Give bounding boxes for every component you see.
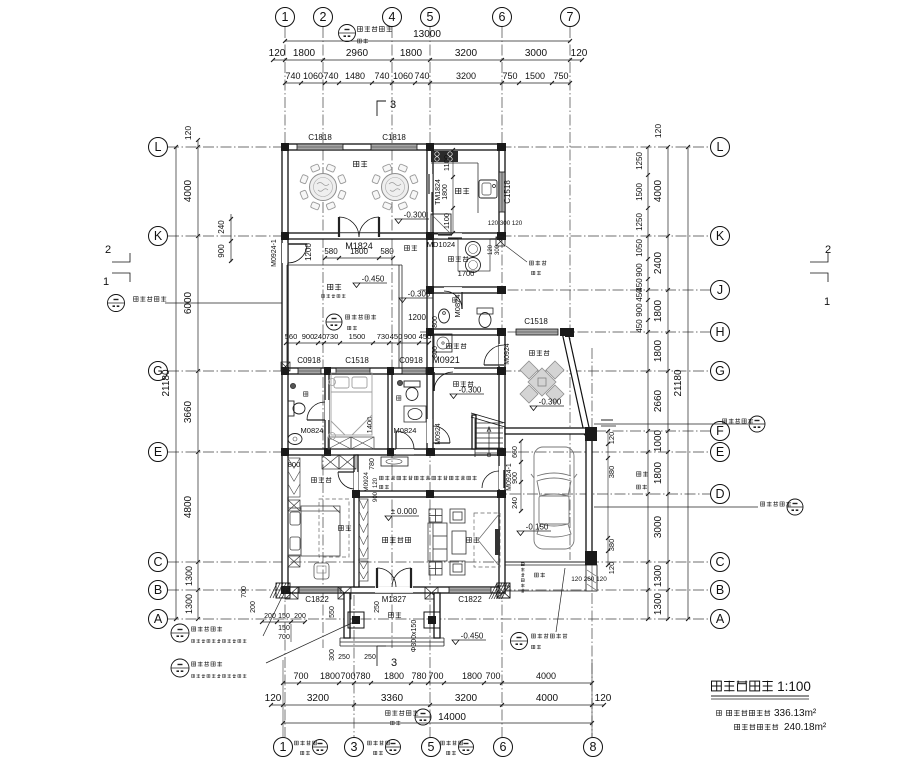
svg-text:120: 120: [571, 48, 588, 59]
svg-text:450: 450: [390, 332, 403, 341]
svg-text:1060: 1060: [393, 71, 413, 81]
svg-text:G: G: [715, 364, 725, 378]
svg-text:120: 120: [269, 48, 286, 59]
svg-text:380: 380: [607, 466, 616, 479]
svg-text:800: 800: [432, 316, 439, 328]
svg-text:1800: 1800: [462, 671, 482, 681]
svg-text:800: 800: [432, 346, 439, 358]
svg-text:C0918: C0918: [297, 356, 321, 365]
svg-text:L: L: [155, 140, 162, 154]
svg-text:C1822: C1822: [305, 595, 329, 604]
svg-text:120: 120: [607, 562, 616, 575]
svg-text:3000: 3000: [653, 515, 664, 538]
svg-text:120 260 120: 120 260 120: [571, 576, 607, 583]
svg-text:K: K: [716, 229, 725, 243]
svg-text:740: 740: [374, 71, 389, 81]
svg-text:1200: 1200: [408, 313, 426, 322]
svg-text:560: 560: [285, 332, 298, 341]
svg-text:1500: 1500: [525, 71, 545, 81]
svg-text:3200: 3200: [455, 693, 478, 704]
svg-text:660: 660: [512, 446, 519, 458]
svg-text:740: 740: [414, 71, 429, 81]
svg-text:3200: 3200: [455, 48, 478, 59]
svg-text:M0824: M0824: [394, 426, 417, 435]
svg-text:200: 200: [294, 613, 306, 620]
svg-text:700: 700: [428, 671, 443, 681]
svg-text:120: 120: [373, 477, 379, 488]
svg-text:1800: 1800: [350, 247, 368, 256]
svg-text:3200: 3200: [307, 693, 330, 704]
svg-text:5: 5: [428, 740, 435, 754]
svg-text:3360: 3360: [381, 693, 404, 704]
svg-text:900: 900: [635, 263, 644, 277]
svg-text:2: 2: [320, 10, 327, 24]
svg-text:6: 6: [499, 10, 506, 24]
svg-text:300: 300: [329, 649, 336, 661]
svg-text:1300: 1300: [653, 564, 664, 587]
svg-text:2: 2: [105, 244, 111, 256]
svg-text:900: 900: [512, 472, 519, 484]
svg-text:3660: 3660: [183, 400, 194, 423]
svg-text:1800: 1800: [653, 461, 664, 484]
svg-text:1: 1: [280, 740, 287, 754]
svg-text:±: ±: [391, 507, 396, 516]
svg-text:150: 150: [278, 613, 290, 620]
svg-text:B: B: [716, 583, 724, 597]
svg-text:3: 3: [390, 99, 396, 111]
svg-text:MD1024: MD1024: [427, 240, 455, 249]
svg-text:1300: 1300: [184, 566, 194, 586]
svg-text:1300: 1300: [184, 594, 194, 614]
svg-text:450: 450: [635, 319, 644, 333]
svg-text:580: 580: [324, 247, 338, 256]
svg-text:-0.450: -0.450: [461, 632, 484, 641]
svg-text:2400: 2400: [653, 251, 664, 274]
svg-text:730: 730: [377, 332, 390, 341]
svg-text:1: 1: [282, 10, 289, 24]
svg-text:4800: 4800: [183, 495, 194, 518]
svg-text:J: J: [717, 283, 723, 297]
svg-text:1050: 1050: [635, 239, 644, 257]
svg-text:6: 6: [500, 740, 507, 754]
svg-text:120: 120: [183, 126, 193, 140]
svg-text:1250: 1250: [635, 213, 644, 231]
svg-text:C: C: [715, 555, 724, 569]
svg-text:C1822: C1822: [458, 595, 482, 604]
svg-text:5: 5: [427, 10, 434, 24]
svg-text:1400: 1400: [365, 417, 374, 434]
svg-text:1000: 1000: [653, 429, 664, 452]
svg-text:800: 800: [288, 460, 301, 469]
svg-text:120: 120: [607, 432, 616, 445]
svg-text:TM1824: TM1824: [435, 179, 442, 205]
svg-text:K: K: [154, 229, 163, 243]
svg-text:240.18m²: 240.18m²: [784, 722, 827, 733]
svg-text:-0.150: -0.150: [526, 523, 549, 532]
svg-text:C0918: C0918: [399, 356, 423, 365]
svg-text:3: 3: [351, 740, 358, 754]
svg-text:336.13m²: 336.13m²: [774, 708, 817, 719]
svg-text:Φ300x150: Φ300x150: [411, 620, 418, 653]
svg-text:730: 730: [326, 332, 339, 341]
svg-text:750: 750: [502, 71, 517, 81]
svg-text:1: 1: [103, 276, 109, 288]
svg-text:M0924: M0924: [363, 472, 370, 492]
svg-text:250: 250: [364, 654, 376, 661]
svg-text:B: B: [154, 583, 162, 597]
svg-text:H: H: [715, 325, 724, 339]
svg-text:1800: 1800: [293, 48, 316, 59]
svg-text:3000: 3000: [525, 48, 548, 59]
svg-text:-0.300: -0.300: [404, 211, 427, 220]
svg-text:F: F: [716, 424, 724, 438]
svg-text:1800: 1800: [653, 299, 664, 322]
svg-text:2960: 2960: [346, 48, 369, 59]
svg-text:250: 250: [338, 654, 350, 661]
svg-text:M1827: M1827: [382, 595, 407, 604]
svg-text:200: 200: [264, 613, 276, 620]
svg-text:A: A: [154, 612, 163, 626]
svg-text:1100: 1100: [442, 155, 451, 171]
svg-text:7: 7: [567, 10, 574, 24]
svg-text:240: 240: [314, 332, 327, 341]
svg-text:240: 240: [512, 497, 519, 509]
svg-text:0.000: 0.000: [397, 507, 418, 516]
svg-text:C: C: [153, 555, 162, 569]
svg-text:120: 120: [265, 693, 282, 704]
svg-text:C1518: C1518: [503, 180, 512, 204]
svg-text:M0824: M0824: [301, 426, 324, 435]
svg-text:1: 1: [824, 296, 830, 308]
svg-text:1060: 1060: [303, 71, 323, 81]
svg-text:-0.300: -0.300: [408, 290, 431, 299]
svg-text:700: 700: [340, 671, 355, 681]
svg-text:21180: 21180: [673, 369, 684, 397]
svg-text:3: 3: [391, 657, 397, 669]
svg-text:700: 700: [293, 671, 308, 681]
svg-text:21180: 21180: [161, 369, 172, 397]
svg-text:250: 250: [374, 601, 381, 613]
svg-text:740: 740: [285, 71, 300, 81]
svg-text:120: 120: [595, 693, 612, 704]
svg-text:740: 740: [323, 71, 338, 81]
svg-text:L: L: [717, 140, 724, 154]
svg-text:900: 900: [373, 491, 379, 502]
svg-text:200: 200: [250, 601, 257, 613]
svg-text:1700: 1700: [458, 269, 475, 278]
svg-text:780: 780: [411, 671, 426, 681]
svg-text:D: D: [715, 487, 724, 501]
svg-text:120: 120: [488, 244, 494, 255]
svg-text:450: 450: [419, 332, 432, 341]
svg-text:2660: 2660: [653, 389, 664, 412]
svg-text:A: A: [716, 612, 725, 626]
svg-text:900: 900: [302, 332, 315, 341]
svg-text:1800: 1800: [653, 339, 664, 362]
svg-text:13000: 13000: [413, 29, 441, 40]
svg-text:1800: 1800: [384, 671, 404, 681]
svg-text:780: 780: [369, 458, 376, 470]
svg-text:1500: 1500: [635, 183, 644, 201]
svg-text:4000: 4000: [653, 179, 664, 202]
svg-text:550: 550: [329, 606, 336, 618]
svg-text:1300: 1300: [653, 592, 664, 615]
svg-text:1250: 1250: [635, 152, 644, 170]
svg-text:780: 780: [355, 671, 370, 681]
svg-text:-0.300: -0.300: [539, 398, 562, 407]
svg-text:150: 150: [278, 625, 290, 632]
svg-text:4000: 4000: [183, 179, 194, 202]
svg-text:4000: 4000: [536, 693, 559, 704]
svg-text:1800: 1800: [442, 184, 449, 200]
svg-text:1100: 1100: [442, 213, 451, 229]
svg-text:120 300 120: 120 300 120: [488, 220, 523, 227]
svg-text:C1818: C1818: [382, 133, 406, 142]
svg-text:700: 700: [241, 586, 248, 598]
svg-text:120: 120: [653, 124, 663, 138]
svg-text:450: 450: [635, 288, 644, 302]
svg-text:1200: 1200: [304, 243, 313, 261]
svg-text:750: 750: [553, 71, 568, 81]
svg-text:900: 900: [217, 244, 226, 258]
svg-text:1800: 1800: [400, 48, 423, 59]
svg-text:1:100: 1:100: [777, 679, 811, 694]
svg-text:1800: 1800: [320, 671, 340, 681]
svg-text:C1518: C1518: [524, 317, 548, 326]
svg-text:E: E: [154, 445, 162, 459]
svg-text:380: 380: [607, 539, 616, 552]
svg-text:700: 700: [485, 671, 500, 681]
svg-text:1500: 1500: [349, 332, 366, 341]
svg-text:580: 580: [380, 247, 394, 256]
svg-text:M0924: M0924: [504, 343, 511, 365]
svg-text:C1518: C1518: [345, 356, 369, 365]
svg-text:14000: 14000: [438, 712, 466, 723]
svg-text:4: 4: [389, 10, 396, 24]
svg-text:-0.300: -0.300: [459, 386, 482, 395]
svg-text:240: 240: [217, 220, 226, 234]
svg-text:900: 900: [404, 332, 417, 341]
svg-text:C1818: C1818: [308, 133, 332, 142]
svg-text:8: 8: [590, 740, 597, 754]
svg-text:E: E: [716, 445, 724, 459]
svg-text:M0924-1: M0924-1: [271, 239, 278, 267]
svg-text:900: 900: [635, 303, 644, 317]
svg-text:700: 700: [278, 634, 290, 641]
svg-text:M0924: M0924: [435, 423, 442, 445]
svg-text:1480: 1480: [345, 71, 365, 81]
svg-text:4000: 4000: [536, 671, 556, 681]
svg-text:-0.450: -0.450: [362, 275, 385, 284]
svg-text:3200: 3200: [456, 71, 476, 81]
